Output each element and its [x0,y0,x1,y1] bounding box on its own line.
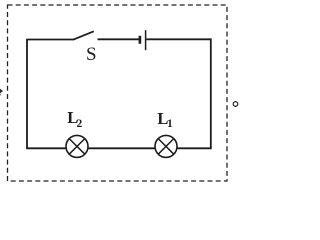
wire: battery to top-right corner [146,38,211,40]
wire: top-left to switch [26,39,73,41]
wire: right vertical [210,38,212,148]
lamp L1 [155,135,177,157]
battery positive plate (long thin) [145,30,147,50]
svg-text:S: S [86,44,97,65]
wire: bottom-right corner to lamp L1 [177,147,212,149]
dashed border frame [8,5,228,181]
battery negative plate (short thick) [139,36,142,44]
terminal circle outside frame [233,102,238,107]
wire: lamp L1 to lamp L2 [88,147,155,149]
wire: switch to battery [98,38,140,40]
clipped mark at left edge [0,89,3,94]
wire: left vertical [26,40,28,149]
switch S blade [73,31,94,40]
svg-text:L2: L2 [67,108,82,130]
svg-text:L1: L1 [157,109,173,130]
lamp L2 [66,135,88,157]
wire: lamp L2 to bottom-left corner [26,147,66,149]
